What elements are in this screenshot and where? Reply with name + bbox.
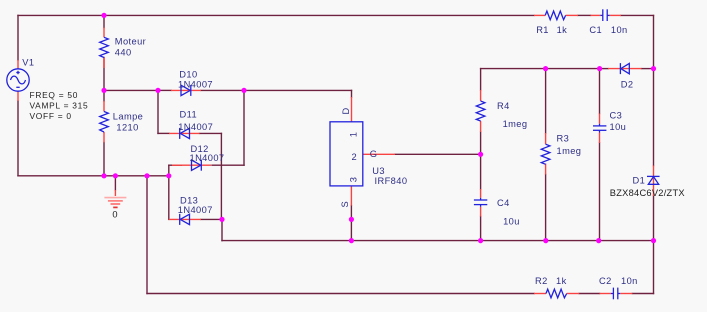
- pin stubs C1: [591, 14, 622, 16]
- label C3: [610, 110, 627, 132]
- diode D2: [620, 63, 629, 74]
- wire x222 vertical: [221, 219, 223, 240]
- junction C4 rail: [478, 238, 483, 243]
- svg-text:VOFF = 0: VOFF = 0: [30, 111, 72, 121]
- svg-text:Moteur: Moteur: [115, 37, 146, 47]
- source V1: [7, 69, 29, 91]
- svg-text:R1: R1: [536, 25, 549, 35]
- junction S rail: [349, 238, 354, 243]
- wire D2 row: [600, 68, 654, 70]
- wire node link y90: [104, 89, 158, 91]
- svg-text:VAMPL = 315: VAMPL = 315: [30, 101, 89, 111]
- svg-text:C1: C1: [589, 25, 602, 35]
- pin stubs Lampe: [103, 101, 105, 143]
- junction C3 rail: [596, 238, 601, 243]
- wire x168 vertical: [168, 165, 170, 219]
- svg-text:S: S: [340, 201, 350, 208]
- junction D13 right: [219, 217, 224, 222]
- pin stubs D13: [169, 218, 201, 220]
- diode D13: [180, 214, 190, 225]
- svg-text:D1: D1: [633, 175, 646, 185]
- mosfet U3 box: [330, 122, 363, 186]
- pin stubs V1: [17, 60, 19, 101]
- label D13: [178, 196, 213, 216]
- svg-text:0: 0: [112, 210, 117, 220]
- pin stub ground: [114, 190, 116, 196]
- wire x221 vertical: [220, 133, 222, 219]
- junction x147: [144, 173, 149, 178]
- junction right rail: [651, 238, 656, 243]
- svg-text:D13: D13: [180, 196, 198, 206]
- capacitor C2: [611, 288, 620, 300]
- svg-text:IRF840: IRF840: [375, 176, 408, 186]
- junction gate R4: [478, 152, 483, 157]
- junction lampe bottom: [101, 173, 106, 178]
- wire ground stub: [114, 176, 116, 190]
- svg-text:U3: U3: [372, 166, 385, 176]
- resistor R4: [476, 101, 485, 121]
- svg-text:D10: D10: [179, 69, 197, 79]
- label Moteur: [115, 37, 146, 58]
- label R2: [535, 276, 567, 286]
- svg-text:C4: C4: [497, 198, 510, 208]
- svg-text:1N4007: 1N4007: [178, 205, 213, 215]
- resistor Moteur: [100, 37, 109, 57]
- pin stubs D10: [171, 89, 201, 91]
- resistor Lampe: [100, 112, 109, 133]
- resistor R3: [541, 144, 550, 164]
- svg-text:10n: 10n: [611, 25, 628, 35]
- pin stubs R2: [534, 293, 579, 295]
- wire D13 row: [201, 218, 222, 220]
- diode D12: [192, 160, 202, 171]
- svg-text:10u: 10u: [503, 216, 520, 226]
- svg-text:1k: 1k: [557, 25, 568, 35]
- svg-text:V1: V1: [22, 57, 34, 67]
- svg-text:440: 440: [115, 48, 132, 58]
- pin stubs R4: [480, 90, 482, 132]
- wire top rail: [18, 14, 654, 16]
- pin stubs D2: [608, 68, 642, 70]
- wire moteur-lampe branch: [103, 15, 105, 175]
- junction top moteur: [101, 13, 106, 18]
- pin stubs R1: [534, 14, 578, 16]
- label R3: [557, 134, 582, 157]
- svg-text:D11: D11: [180, 110, 198, 120]
- junction S wire: [349, 217, 354, 222]
- junction C3 top: [597, 66, 602, 71]
- diode D10: [181, 85, 191, 96]
- pin stubs C4: [480, 189, 482, 217]
- capacitor C3: [593, 124, 606, 133]
- svg-text:3: 3: [349, 177, 359, 183]
- pin stubs Moteur: [103, 28, 105, 69]
- wire x158 vertical: [157, 90, 159, 133]
- label U3: [372, 166, 407, 186]
- zener D1: [647, 176, 660, 184]
- junction D2 right: [651, 66, 656, 71]
- wire bottom-left rail: [18, 175, 169, 177]
- ground 0: [104, 198, 126, 208]
- svg-text:1210: 1210: [116, 122, 138, 132]
- pin stub U3 drain: [351, 97, 353, 122]
- junction ground: [113, 173, 118, 178]
- svg-text:10n: 10n: [621, 276, 638, 286]
- svg-text:C3: C3: [610, 110, 623, 120]
- svg-text:1meg: 1meg: [557, 146, 582, 156]
- svg-text:C2: C2: [599, 276, 612, 286]
- junction D10 right: [241, 88, 246, 93]
- svg-text:1k: 1k: [556, 276, 567, 286]
- label C4: [497, 198, 520, 227]
- svg-text:FREQ = 50: FREQ = 50: [30, 90, 79, 100]
- wire R4-C4 branch: [480, 69, 482, 241]
- resistor R2: [546, 289, 567, 298]
- label C1: [589, 25, 627, 35]
- label R4: [497, 101, 527, 129]
- svg-text:1meg: 1meg: [503, 119, 528, 129]
- wire x244 vertical: [243, 90, 245, 165]
- label Lampe: [113, 112, 143, 133]
- pin stub U3 source: [350, 186, 352, 206]
- pin stubs C3: [599, 114, 601, 144]
- capacitor C1: [600, 9, 609, 21]
- label D12: [190, 144, 225, 163]
- svg-text:R2: R2: [535, 276, 548, 286]
- pin stubs R3: [545, 133, 547, 175]
- pin stubs D1: [653, 166, 655, 197]
- svg-text:D2: D2: [621, 80, 634, 90]
- wire top-mid rail: [481, 68, 600, 70]
- wire left rail: [17, 15, 19, 175]
- junction D10 left: [155, 88, 160, 93]
- svg-text:Lampe: Lampe: [113, 112, 143, 122]
- wire D10 row: [158, 90, 352, 97]
- wire C3 branch: [599, 69, 601, 241]
- junction x168: [166, 173, 171, 178]
- junction R3 rail: [543, 238, 548, 243]
- svg-text:BZX84C6V2/ZTX: BZX84C6V2/ZTX: [610, 188, 685, 198]
- svg-text:G: G: [370, 149, 378, 159]
- wire R3 branch: [545, 69, 547, 241]
- resistor R1: [545, 11, 565, 20]
- svg-text:D: D: [341, 107, 351, 114]
- pin stub U3 gate: [363, 153, 395, 155]
- svg-text:1N4007: 1N4007: [190, 153, 225, 163]
- wire right rail: [653, 15, 655, 293]
- svg-text:1N4007: 1N4007: [178, 122, 213, 132]
- wire G row: [395, 153, 481, 155]
- svg-text:R4: R4: [497, 101, 510, 111]
- label D10: [178, 69, 213, 89]
- junction moteur-lampe: [101, 88, 106, 93]
- wire bottom rail: [147, 293, 654, 295]
- wire S pin to rail: [350, 206, 352, 241]
- capacitor C4: [474, 198, 487, 207]
- wire D12 row: [169, 164, 244, 166]
- svg-text:1: 1: [349, 132, 359, 138]
- pin stubs D12: [172, 164, 211, 166]
- label C2: [599, 276, 638, 286]
- svg-text:10u: 10u: [610, 122, 627, 132]
- pin stubs C2: [600, 293, 633, 295]
- svg-text:1N4007: 1N4007: [178, 79, 213, 89]
- wire bottom-mid rail: [222, 240, 654, 242]
- label D11: [178, 110, 213, 133]
- pin stubs D11: [169, 132, 200, 134]
- diode D11: [180, 128, 190, 139]
- junction R3 top: [543, 66, 548, 71]
- wire D11 row: [158, 132, 221, 134]
- label FREQ: [30, 90, 89, 121]
- label R1: [536, 25, 567, 35]
- wire x147 vertical: [146, 176, 148, 294]
- svg-text:R3: R3: [557, 134, 570, 144]
- svg-text:2: 2: [352, 152, 358, 162]
